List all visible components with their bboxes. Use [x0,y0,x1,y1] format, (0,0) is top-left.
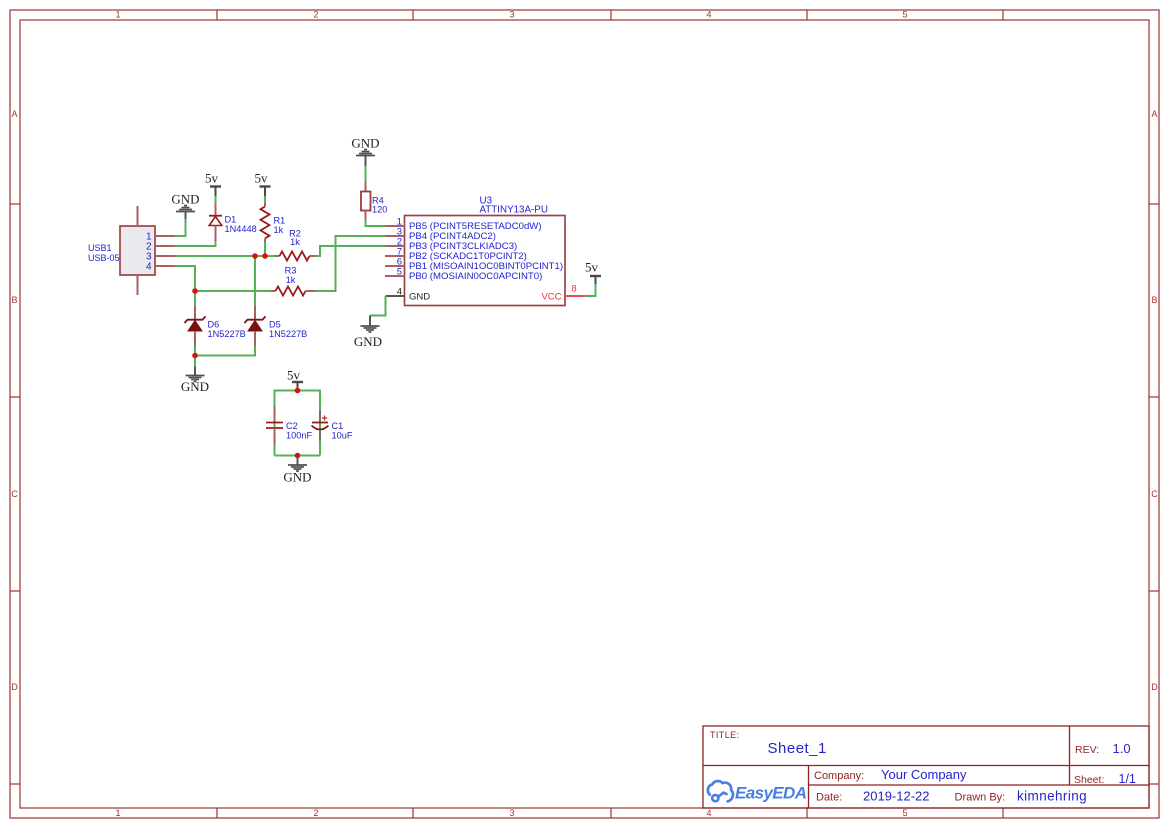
wire capacitor loop top [275,391,321,456]
U3 pin 5 stub [385,275,405,277]
power symbol 5v (above capacitors) [287,368,303,391]
svg-text:10uF: 10uF [332,431,353,441]
svg-text:REV:: REV: [1075,744,1099,756]
resistor R1 [261,203,270,242]
svg-text:4: 4 [706,10,711,20]
svg-text:C2: C2 [286,421,298,431]
power symbol 5v (above D1) [205,171,221,197]
svg-text:5: 5 [902,808,907,818]
svg-text:GND: GND [283,470,311,485]
wire GND to R4 [365,166,367,182]
svg-text:A: A [1151,109,1157,119]
wire D1 anode to USB1 pin2 [175,241,216,246]
capacitor C1 polarized [312,410,329,441]
svg-text:Company:: Company: [814,770,864,782]
USB1 pin 2 [155,245,175,247]
wire D6 bottom to D5 bottom [195,346,255,356]
U3 pin numbers left [397,217,402,278]
svg-text:5v: 5v [585,260,599,275]
svg-text:EasyEDA: EasyEDA [735,784,807,803]
zener diode D6 [185,291,206,346]
wire R3 to U3 pin 3 [316,236,386,291]
svg-text:3: 3 [509,10,514,20]
wire USB1 pin4 elbow down [175,266,195,291]
power symbol GND (top, above R4) [351,136,379,167]
svg-text:R1: R1 [274,216,286,226]
svg-text:C: C [11,489,18,499]
IC U3 body [405,216,566,306]
svg-text:D1: D1 [225,215,237,225]
USB1 pin 1 [155,235,175,237]
resistor R3 [271,287,316,296]
wire R1 to node row [264,242,266,256]
connector USB1 body [120,226,155,275]
svg-text:5v: 5v [205,171,219,186]
svg-text:1N5227B: 1N5227B [269,329,307,339]
USB1 pin 4 [155,265,175,267]
wire node C to R3 [195,290,271,292]
svg-text:Sheet:: Sheet: [1074,774,1104,786]
svg-text:120: 120 [372,205,387,215]
svg-text:GND: GND [409,292,430,303]
USB1 shield pin bottom [137,275,139,295]
svg-text:USB1: USB1 [88,243,112,253]
zener diode D5 [245,306,266,346]
ground symbol GND (below capacitors) [283,458,311,485]
svg-text:8: 8 [571,284,576,295]
U3 pin 3 stub [385,235,405,237]
U3 pin 4 GND stub [386,295,405,297]
wire 5v to D1 cathode [215,196,217,203]
svg-text:1k: 1k [274,225,284,235]
svg-text:GND: GND [171,192,199,207]
ground symbol GND (below D6) [181,367,209,395]
svg-text:2019-12-22: 2019-12-22 [863,789,930,804]
svg-text:A: A [11,109,17,119]
svg-text:1k: 1k [286,275,296,285]
svg-text:1k: 1k [290,237,300,247]
wire USB1 pin1 to GND [175,219,186,236]
svg-text:5v: 5v [255,171,269,186]
U3 pin 7 stub [385,255,405,257]
svg-text:D5: D5 [269,320,281,330]
capacitor C2 [266,406,283,445]
svg-text:C1: C1 [332,421,344,431]
svg-text:4: 4 [706,808,711,818]
wire R2 to U3 pin 2 [316,246,386,256]
svg-text:1.0: 1.0 [1113,741,1131,756]
svg-text:R3: R3 [285,266,297,276]
power symbol 5v (above R1) [255,171,271,197]
svg-text:VCC: VCC [541,292,561,303]
svg-text:Date:: Date: [816,792,842,804]
svg-text:1N4448: 1N4448 [225,224,257,234]
wire capacitor loop bottom [275,455,321,457]
U3 pin 6 stub [385,265,405,267]
svg-text:5: 5 [902,10,907,20]
U3 pin 8 VCC stub [565,295,586,297]
diode D1 [209,203,222,241]
wire node D down [194,356,196,367]
svg-text:ATTINY13A-PU: ATTINY13A-PU [480,205,548,216]
U3 pin 2 stub [385,245,405,247]
svg-text:D: D [1151,682,1158,692]
svg-text:Your Company: Your Company [881,767,967,782]
USB1 pin numbers [146,232,152,273]
svg-text:1: 1 [115,808,120,818]
svg-text:1/1: 1/1 [1119,772,1136,786]
svg-text:Sheet_1: Sheet_1 [768,740,827,757]
power symbol 5v (at VCC) [585,260,601,285]
svg-text:USB-05: USB-05 [88,253,120,263]
wire R4 to U3 pin 1 [366,220,386,226]
wire VCC to 5v [586,284,596,296]
svg-text:4: 4 [397,287,402,298]
wire USB1 pin3 row [175,255,275,257]
svg-text:TITLE:: TITLE: [710,730,739,740]
svg-text:100nF: 100nF [286,431,312,441]
svg-text:2: 2 [313,808,318,818]
wire 5v to R1 [264,196,266,203]
svg-text:2: 2 [313,10,318,20]
svg-text:B: B [11,295,17,305]
svg-text:1: 1 [115,10,120,20]
ground symbol GND (below U3) [354,316,382,350]
svg-text:B: B [1151,295,1157,305]
svg-text:GND: GND [351,136,379,151]
svg-text:Drawn By:: Drawn By: [955,792,1006,804]
USB1 shield pin top [137,206,139,226]
svg-text:3: 3 [509,808,514,818]
wire cap bottom to GND [297,456,299,459]
svg-text:D6: D6 [208,320,220,330]
svg-text:C: C [1151,489,1158,499]
svg-text:GND: GND [354,334,382,349]
svg-text:D: D [11,682,18,692]
resistor R4 [361,182,371,221]
junction dots (net connections) [192,253,300,458]
title block outline [703,726,1149,808]
svg-text:1N5227B: 1N5227B [208,329,246,339]
USB1 pin 3 [155,255,175,257]
EasyEDA logo cloud icon [708,781,733,801]
resistor R2 [275,252,316,261]
power symbol GND (near USB1 pin 1) [171,192,199,220]
svg-text:5: 5 [397,267,402,278]
svg-text:4: 4 [146,262,152,273]
svg-text:5v: 5v [287,368,301,383]
svg-text:kimnehring: kimnehring [1017,789,1087,804]
wire U3 GND pin elbow [370,296,386,316]
svg-text:GND: GND [181,379,209,394]
U3 pin 1 stub [385,225,405,227]
wire node to D5 [254,256,256,306]
svg-text:PB0 (MOSIAIN0OC0APCINT0): PB0 (MOSIAIN0OC0APCINT0) [409,271,542,282]
